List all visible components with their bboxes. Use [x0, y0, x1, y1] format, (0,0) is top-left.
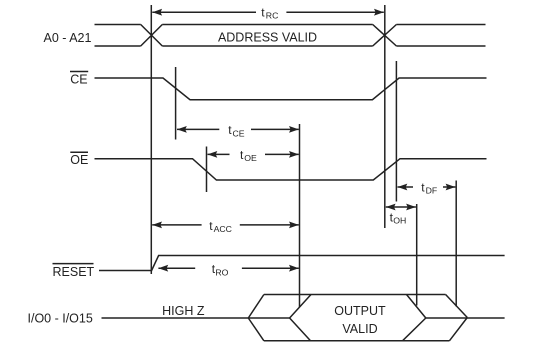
address bus waveform A0-A21 [95, 25, 486, 47]
svg-text:RO: RO [215, 267, 228, 277]
I/O bus-on left diagonals [248, 295, 264, 341]
svg-text:HIGH Z: HIGH Z [162, 304, 205, 318]
svg-text:A0 - A21: A0 - A21 [44, 31, 92, 45]
svg-text:RESET: RESET [53, 265, 95, 279]
measurement line at output-hold end [416, 204, 418, 306]
I/O HIGH Z line [102, 317, 249, 319]
svg-text:CE: CE [70, 73, 87, 87]
svg-text:DF: DF [426, 186, 438, 196]
tOE arrow [208, 153, 299, 155]
svg-text:OH: OH [393, 216, 406, 226]
svg-text:ACC: ACC [214, 224, 232, 234]
measurement line at output float [455, 181, 457, 307]
I/O valid-start crossover [290, 295, 311, 341]
svg-text:OE: OE [70, 153, 88, 167]
signal label RESET overline [53, 263, 94, 265]
measurement line at CE fall [175, 67, 177, 140]
OE waveform [95, 159, 487, 180]
tCE arrow [177, 128, 299, 130]
I/O outer top edge [264, 294, 446, 296]
RESET waveform [99, 256, 505, 271]
tDF arrow [398, 186, 456, 188]
svg-text:I/O0 - I/O15: I/O0 - I/O15 [28, 312, 93, 326]
svg-text:VALID: VALID [342, 322, 377, 336]
measurement line at address-valid end [384, 5, 386, 228]
tRC arrow [152, 11, 383, 13]
signal label OE overline [70, 151, 88, 153]
measurement line at CE-OE high [395, 61, 397, 202]
measurement line at OE fall [206, 147, 208, 193]
svg-text:RC: RC [266, 11, 279, 21]
measurement line at output-valid start [299, 124, 301, 307]
svg-text:t: t [261, 5, 265, 19]
measurement line at address-valid start [150, 5, 152, 274]
CE waveform [95, 78, 487, 100]
I/O outer bottom edge [264, 340, 450, 342]
svg-text:OUTPUT: OUTPUT [334, 304, 386, 318]
svg-text:CE: CE [233, 128, 245, 138]
I/O mid segment before valid [248, 317, 289, 319]
tACC arrow [152, 224, 299, 226]
I/O valid-end crossover [403, 295, 426, 341]
I/O mid segment after valid [426, 317, 505, 319]
tOH arrow [386, 206, 416, 208]
signal label CE overline [70, 71, 88, 73]
svg-text:OE: OE [244, 153, 257, 163]
I/O bus-off right diagonals [446, 295, 468, 341]
tRO arrow [158, 267, 298, 269]
svg-text:ADDRESS VALID: ADDRESS VALID [218, 31, 317, 45]
